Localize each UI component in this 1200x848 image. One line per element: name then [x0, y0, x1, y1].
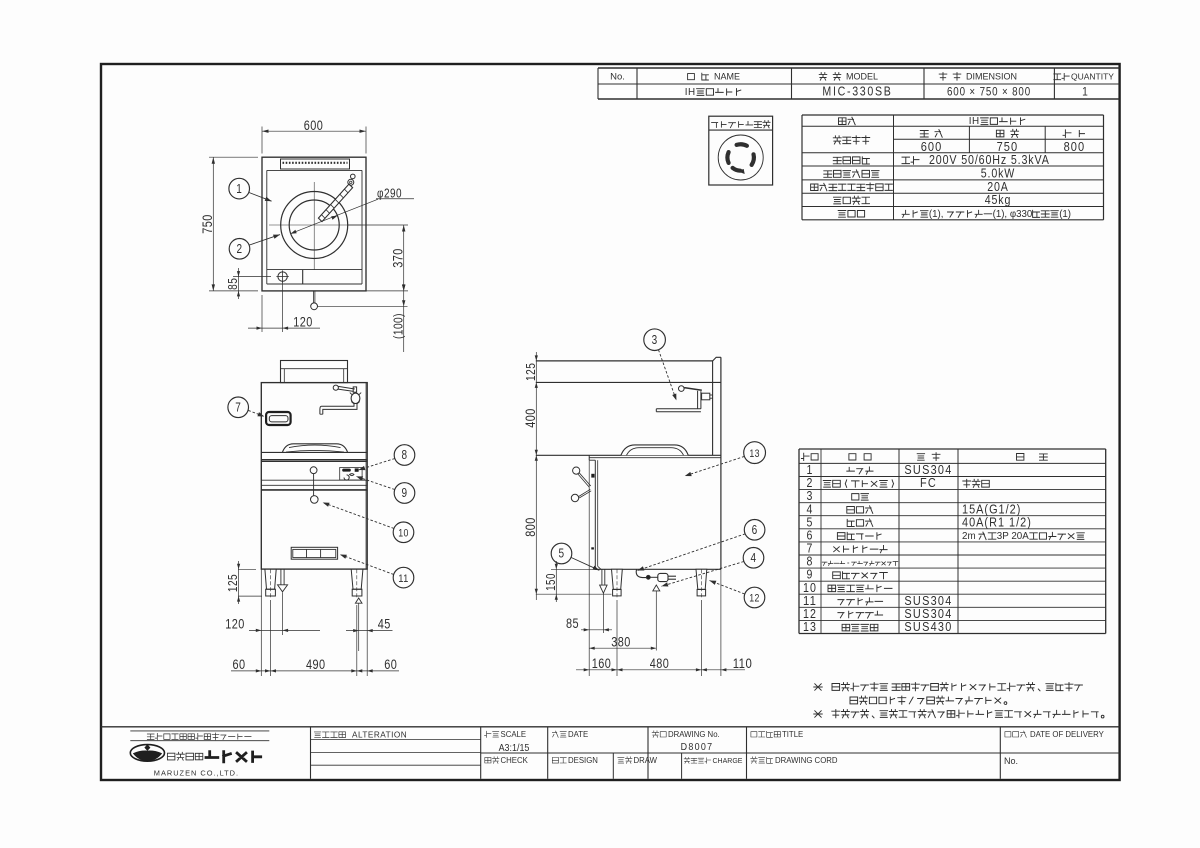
control band lines front [261, 479, 367, 481]
dim 60/490/60 front bottom [270, 600, 272, 676]
phi290 diameter callout [291, 199, 379, 234]
svg-text:600: 600 [921, 139, 943, 154]
svg-text:DESIGN: DESIGN [568, 756, 598, 765]
svg-text:1: 1 [1082, 85, 1088, 99]
svg-text:60: 60 [384, 656, 397, 672]
svg-text:MODEL: MODEL [846, 72, 878, 82]
svg-text:45: 45 [378, 616, 391, 632]
dim 120 plan drain x [261, 295, 263, 332]
maruzen company logo cell [130, 730, 269, 732]
faucet swing arm (plan) [318, 184, 352, 222]
svg-text:(1), φ330: (1), φ330 [993, 209, 1033, 220]
faucet side view [679, 386, 685, 392]
svg-text:150: 150 [544, 573, 558, 591]
svg-text:SCALE: SCALE [501, 730, 527, 739]
svg-text:CHARGE: CHARGE [713, 758, 743, 765]
svg-text:DRAWING No.: DRAWING No. [668, 730, 720, 739]
side view top edge line [536, 360, 713, 362]
dim 85 plan drain [233, 276, 271, 278]
parts list table [799, 448, 1106, 450]
output lever (10) [313, 474, 315, 496]
counter top band lines front [261, 451, 367, 453]
drawing sheet outer border frame [101, 64, 1120, 780]
svg-text:CHECK: CHECK [501, 756, 529, 765]
svg-text:DRAW: DRAW [634, 756, 658, 765]
front left leg [265, 569, 276, 589]
balloon 10 output lever [393, 522, 414, 543]
side drain pipe and funnel (5) [601, 569, 603, 585]
plan view body outline [262, 157, 366, 291]
water inlet symbol (4) [653, 585, 660, 591]
title block cell labels [314, 732, 345, 738]
svg-text:QUANTITY: QUANTITY [1071, 72, 1114, 82]
front view flue chimney [281, 361, 348, 383]
title strip table: No./NAME/MODEL/DIMENSION/QUANTITY [598, 67, 1120, 69]
side front leg [612, 569, 623, 589]
svg-text:750: 750 [997, 139, 1019, 154]
side floor line [536, 593, 612, 595]
faucet front view [333, 385, 338, 390]
dim 125 front leg height [238, 568, 256, 570]
kettle ring outer circle [281, 192, 348, 259]
dim 150 drain clearance [551, 568, 595, 570]
svg-text:4: 4 [807, 502, 814, 516]
svg-text:3: 3 [807, 489, 814, 503]
dim (100) cord offset [403, 291, 405, 352]
svg-text:85: 85 [225, 278, 240, 290]
svg-text:8: 8 [807, 555, 814, 569]
svg-text:200V 50/60Hz 5.3kVA: 200V 50/60Hz 5.3kVA [929, 153, 1050, 167]
wok pan hump side [621, 445, 688, 455]
svg-text:(1),: (1), [929, 209, 944, 220]
outlet shape box (connector symbol) [709, 116, 773, 185]
balloon 4 water inlet [743, 548, 764, 569]
svg-text:600 × 750 × 800: 600 × 750 × 800 [947, 87, 1031, 99]
side view body front panel [594, 460, 596, 569]
svg-text:85: 85 [566, 615, 579, 631]
svg-text:110: 110 [733, 655, 753, 671]
center lines of ring [313, 182, 315, 270]
balloon 5 drain [551, 543, 572, 564]
balloon 11 filter [393, 567, 414, 588]
svg-text:No.: No. [610, 72, 625, 83]
faucet spout side [656, 408, 701, 410]
svg-text:SUS430: SUS430 [904, 619, 952, 634]
balloon 1 top plate [229, 178, 250, 199]
svg-text:5: 5 [807, 515, 814, 529]
svg-text:7: 7 [807, 542, 814, 556]
svg-text:11: 11 [803, 594, 817, 608]
svg-text:800: 800 [522, 517, 538, 537]
svg-text:TITLE: TITLE [782, 730, 803, 739]
balloon 3 water tap [644, 329, 666, 351]
power switch circle (9) [310, 467, 317, 474]
svg-text:600: 600 [304, 117, 324, 133]
front right leg [351, 569, 363, 589]
svg-text:8: 8 [402, 448, 408, 462]
plan view bottom inset panel [267, 269, 362, 271]
svg-text:No.: No. [1004, 756, 1018, 766]
balloon 2 kettle ring [229, 239, 250, 260]
svg-text:3: 3 [652, 333, 658, 347]
faucet mount fittings (plan) [351, 174, 356, 179]
faucet spout front [320, 403, 354, 414]
svg-text:40A(R1 1/2): 40A(R1 1/2) [962, 514, 1032, 529]
svg-text:400: 400 [522, 408, 538, 428]
svg-text:(100): (100) [390, 313, 405, 339]
svg-text:DATE OF DELIVERY: DATE OF DELIVERY [1030, 730, 1105, 739]
svg-text:160: 160 [592, 655, 612, 671]
dim 600 top of plan [261, 127, 263, 154]
drain fitting symbol in plan [278, 272, 287, 281]
dim 750 left of plan [209, 156, 258, 158]
svg-text:7: 7 [235, 401, 241, 415]
svg-text:6: 6 [752, 523, 758, 537]
svg-text:A3:1/15: A3:1/15 [499, 742, 530, 754]
svg-text:MARUZEN CO.,LTD.: MARUZEN CO.,LTD. [154, 768, 239, 777]
power cord and plug side view (6) [636, 569, 646, 577]
svg-text:2: 2 [807, 476, 814, 490]
svg-text:DIMENSION: DIMENSION [966, 72, 1017, 82]
control knobs on front panel side view [573, 467, 580, 474]
balloon 13 side panel [744, 442, 766, 464]
svg-text:ALTERATION: ALTERATION [352, 730, 407, 739]
svg-text:480: 480 [650, 655, 670, 671]
svg-text:NAME: NAME [714, 72, 740, 82]
filter grille (11) [291, 547, 337, 559]
svg-text:750: 750 [199, 214, 215, 234]
wok pan hump front [283, 444, 348, 452]
svg-text:6: 6 [807, 528, 814, 542]
svg-text:DRAWING CORD: DRAWING CORD [775, 756, 838, 765]
balloon 12 adjuster [744, 587, 765, 608]
alteration cell rule lines [311, 739, 481, 741]
dim 45 front cord offset [366, 569, 368, 676]
svg-text:12: 12 [749, 593, 759, 605]
svg-text:(1): (1) [1059, 209, 1071, 220]
svg-text:D8007: D8007 [681, 741, 714, 753]
svg-text:MIC-330SB: MIC-330SB [822, 85, 892, 99]
indicator lamp (7) [266, 412, 291, 425]
svg-text:10: 10 [398, 528, 408, 540]
svg-text:2: 2 [237, 242, 243, 256]
side view backsplash rear panel [713, 357, 721, 455]
balloon 6 power cord [744, 520, 765, 541]
plan view inner panel lines [267, 169, 362, 171]
balloon 8 start/stop switch [394, 445, 415, 466]
svg-text:9: 9 [807, 568, 814, 582]
start/stop switch (8) [340, 468, 362, 481]
dim 370 right of plan [348, 224, 408, 226]
svg-text:5.0kW: 5.0kW [981, 167, 1015, 181]
side view counter top [536, 454, 721, 456]
svg-text:1: 1 [807, 463, 814, 477]
svg-text:45kg: 45kg [985, 193, 1011, 207]
side dim stack 125/400/800 [535, 352, 537, 600]
svg-text:13: 13 [749, 448, 759, 460]
svg-text:9: 9 [402, 486, 408, 500]
front view body inner right edge [365, 383, 367, 570]
svg-text:5: 5 [559, 547, 565, 561]
svg-text:12: 12 [803, 607, 817, 621]
svg-text:370: 370 [389, 248, 405, 268]
svg-text:380: 380 [611, 633, 631, 649]
svg-text:4: 4 [751, 551, 757, 565]
svg-text:120: 120 [293, 314, 313, 330]
balloon 9 power switch [394, 483, 415, 504]
side view backsplash bend line [536, 381, 721, 383]
title block frame [101, 726, 1120, 728]
svg-text:125: 125 [225, 574, 240, 592]
dim 380 side inlet offset [589, 647, 656, 649]
svg-text:800: 800 [1064, 139, 1086, 154]
kettle ring inner circle (phi290) [289, 200, 339, 250]
specification table [802, 114, 1104, 116]
dim 120 front drain offset [260, 569, 262, 676]
front power cord plug symbol [355, 598, 362, 603]
svg-text:FC: FC [920, 475, 937, 490]
svg-text:φ290: φ290 [377, 185, 402, 200]
dim 85 side drain offset [588, 460, 590, 676]
svg-text:490: 490 [306, 656, 326, 672]
front view body outline [261, 383, 367, 569]
svg-text:2m: 2m [962, 531, 976, 542]
side view body bottom [595, 568, 721, 570]
power cord outlet below plan view [312, 291, 314, 303]
svg-text:120: 120 [225, 616, 245, 632]
front drain pipe and funnel [280, 569, 282, 584]
svg-text:13: 13 [803, 620, 817, 634]
svg-text:1: 1 [236, 182, 242, 196]
twist-lock plug symbol [718, 135, 763, 180]
svg-text:60: 60 [232, 656, 245, 672]
svg-text:IH: IH [969, 116, 980, 127]
svg-text:3P 20A: 3P 20A [997, 531, 1029, 542]
svg-text:10: 10 [803, 581, 817, 595]
plan view top vent strip [281, 159, 350, 169]
svg-text:20A: 20A [987, 180, 1009, 194]
notes with reference marks [814, 684, 822, 690]
dim 160/480/110 side bottom [616, 600, 618, 676]
svg-text:11: 11 [398, 573, 408, 585]
svg-text:DATE: DATE [568, 730, 588, 739]
balloon 7 indicator [228, 397, 249, 418]
side rear leg [696, 569, 707, 589]
svg-text:IH: IH [685, 87, 696, 98]
svg-text:125: 125 [523, 363, 538, 381]
